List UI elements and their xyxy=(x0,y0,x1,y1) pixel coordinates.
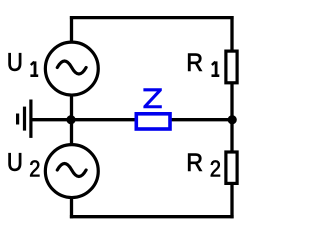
sine symbol of U1 xyxy=(57,61,86,74)
wire between node A and U2 xyxy=(70,120,73,145)
wire between R1 and node B xyxy=(230,83,233,120)
wire between node B and R2 xyxy=(230,120,233,152)
subscript 1 of U1 xyxy=(30,61,38,75)
label R1 xyxy=(188,54,202,71)
subscript 1 of R1 xyxy=(212,61,220,75)
node B junction dot xyxy=(228,115,237,124)
wire bottom horizontal xyxy=(70,215,234,218)
wire from node A to Z xyxy=(72,118,137,121)
impedance Z box xyxy=(136,114,170,129)
wire between U1 and node A xyxy=(70,95,73,120)
wire right vertical between top and R1 xyxy=(230,16,233,52)
ground xyxy=(18,100,31,138)
voltage source U1 xyxy=(45,42,98,95)
subscript 2 of R2 xyxy=(211,160,220,176)
label R2 xyxy=(188,154,202,171)
wire top horizontal xyxy=(70,16,234,19)
wire from Z to node B xyxy=(170,118,232,121)
wire from ground to node A xyxy=(31,118,72,121)
resistor R2 xyxy=(226,152,237,183)
node A junction dot xyxy=(66,115,75,124)
wire right vertical between R2 and bottom xyxy=(230,183,233,218)
voltage source U2 xyxy=(45,145,98,198)
label Z xyxy=(143,88,161,108)
wire left vertical stub above U1 xyxy=(70,16,73,42)
subscript 2 of U2 xyxy=(30,160,39,176)
label U1 xyxy=(9,53,22,71)
resistor R1 xyxy=(226,51,237,83)
label U2 xyxy=(9,153,22,171)
sine symbol of U2 xyxy=(57,164,86,177)
wire below U2 xyxy=(70,197,73,218)
